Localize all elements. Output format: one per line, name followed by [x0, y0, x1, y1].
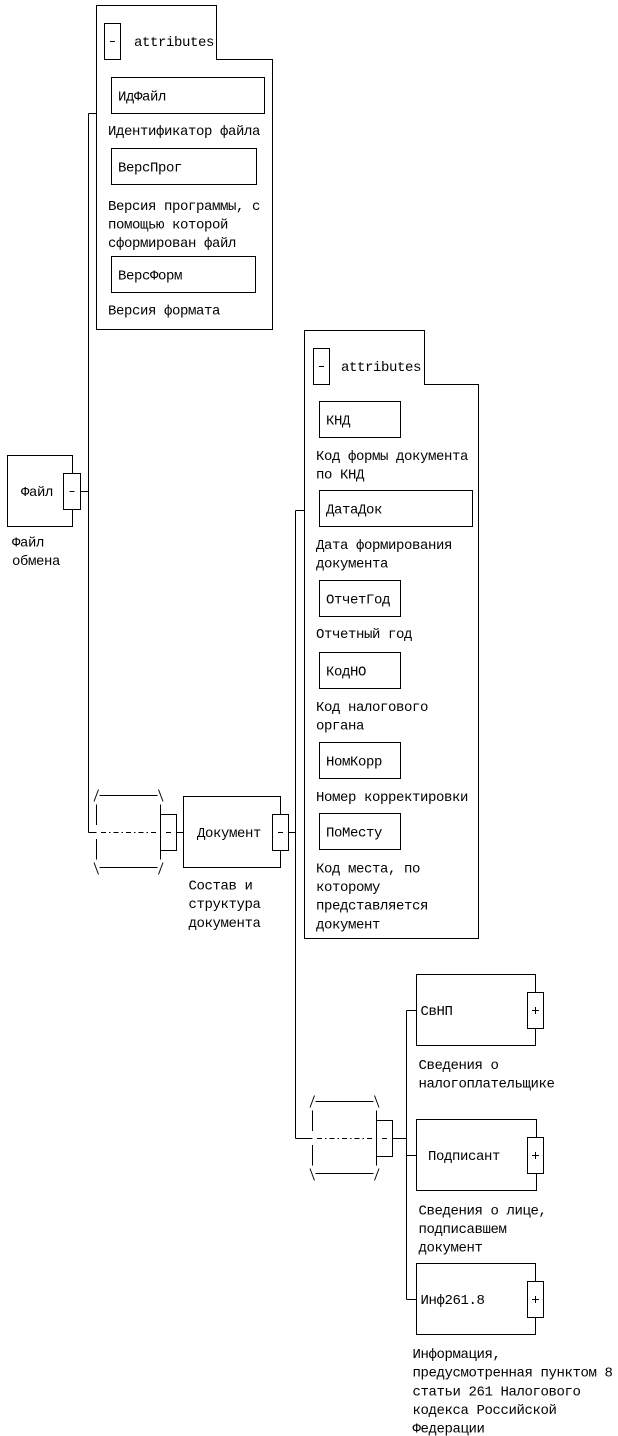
attribute box НомКорр [320, 743, 401, 779]
wire: bus to sequence symbol [89, 832, 97, 834]
svg-text:КодНО: КодНО [326, 665, 366, 681]
collapse box [-] of sequence (Документ children) [377, 1121, 393, 1157]
svg-text:ИдФайл: ИдФайл [118, 89, 166, 106]
expand box [-] of Файл [64, 474, 81, 510]
svg-text:налогоплательщике: налогоплательщике [419, 1077, 555, 1093]
svg-text:документа: документа [189, 916, 261, 932]
attribute box КодНО [320, 653, 401, 689]
svg-text:документ: документ [316, 917, 380, 933]
wire: trunk to Подписант [407, 1155, 417, 1157]
svg-text:ПоМесту: ПоМесту [326, 826, 382, 842]
svg-text:КНД: КНД [326, 414, 351, 430]
svg-text:по КНД: по КНД [316, 467, 365, 483]
wire: bus to lower sequence symbol [296, 1138, 313, 1140]
attribute box ВерсФорм [112, 257, 256, 293]
svg-text:статьи 261 Налогового: статьи 261 Налогового [413, 1384, 581, 1400]
wire: right vertical bus [295, 511, 297, 1139]
svg-text:предусмотренная пунктом 8: предусмотренная пунктом 8 [413, 1366, 613, 1382]
attribute box ВерсПрог [112, 149, 257, 185]
svg-text:attributes: attributes [341, 360, 421, 376]
svg-text:Номер корректировки: Номер корректировки [316, 790, 468, 806]
svg-text:представляется: представляется [316, 899, 428, 915]
svg-text:обмена: обмена [12, 553, 60, 570]
expand box [+] of Подписант [528, 1138, 544, 1174]
svg-text:Федерации: Федерации [413, 1422, 485, 1436]
svg-text:Код места, по: Код места, по [316, 862, 420, 878]
wire: left vertical bus [88, 114, 90, 833]
element box СвНП [417, 975, 536, 1046]
svg-text:Версия формата: Версия формата [108, 304, 220, 320]
wire: child trunk vertical [406, 1011, 408, 1300]
expand box [+] of Инф261.8 [528, 1282, 544, 1318]
collapse box [-] of sequence (Файл children) [161, 815, 177, 851]
svg-text:СвНП: СвНП [421, 1004, 453, 1020]
svg-text:Документ: Документ [197, 826, 261, 842]
collapse box [-] of Документ attributes [314, 349, 330, 385]
svg-text:структура: структура [189, 897, 261, 913]
svg-text:Файл: Файл [12, 535, 44, 552]
annotation: Код формы документа по КНД [316, 449, 468, 484]
annotation: Файл обмена [12, 535, 60, 571]
collapse box [-] of Файл attributes [105, 24, 121, 60]
svg-text:Сведения о лице,: Сведения о лице, [419, 1204, 547, 1220]
expand box [+] of СвНП [528, 993, 544, 1029]
svg-text:ДатаДок: ДатаДок [326, 503, 382, 519]
svg-text:органа: органа [316, 718, 364, 734]
svg-text:сформирован файл: сформирован файл [108, 235, 236, 252]
sequence compositor symbol (Файл children) [94, 790, 163, 875]
expand box [-] of Документ [273, 815, 289, 851]
svg-text:помощью которой: помощью которой [108, 216, 228, 233]
svg-text:ВерсПрог: ВерсПрог [118, 161, 182, 177]
attribute box КНД [320, 402, 401, 438]
svg-text:Инф261.8: Инф261.8 [421, 1293, 485, 1309]
annotation: Код места представления [316, 862, 428, 934]
wire: trunk to СвНП [407, 1010, 417, 1012]
attributes group of Документ (outline) [305, 331, 479, 939]
wire: bus to attributes group [89, 113, 97, 115]
annotation: Дата формирования документа [316, 538, 452, 573]
svg-text:ОтчетГод: ОтчетГод [326, 593, 390, 609]
svg-text:Дата формирования: Дата формирования [316, 538, 452, 554]
svg-text:ВерсФорм: ВерсФорм [118, 269, 182, 285]
svg-text:Код формы документа: Код формы документа [316, 449, 468, 465]
svg-text:подписавшем: подписавшем [419, 1222, 507, 1238]
wire: trunk to Инф261.8 [407, 1299, 417, 1301]
wire: sequence to Документ [177, 832, 184, 834]
svg-text:НомКорр: НомКорр [326, 755, 382, 771]
svg-text:документ: документ [419, 1241, 483, 1257]
svg-text:Код налогового: Код налогового [316, 700, 428, 716]
svg-text:Сведения о: Сведения о [419, 1058, 499, 1074]
svg-text:Файл: Файл [21, 484, 53, 501]
wire: Файл [-] to vertical bus [81, 491, 89, 493]
annotation: Состав и структура документа [189, 879, 261, 932]
svg-text:Информация,: Информация, [413, 1347, 501, 1363]
attribute box ОтчетГод [320, 581, 401, 617]
element box Подписант [417, 1120, 537, 1191]
wire: Документ [-] to right vertical bus [289, 832, 296, 834]
svg-text:attributes: attributes [134, 35, 214, 51]
element box Документ [184, 797, 281, 868]
svg-text:кодекса Российской: кодекса Российской [413, 1402, 557, 1419]
annotation: Версия программы [108, 199, 260, 252]
annotation: Сведения о лице, подписавшем документ [419, 1204, 547, 1257]
svg-text:которому: которому [316, 880, 380, 896]
attributes group of Файл (outline) [97, 6, 273, 330]
sequence compositor symbol (Документ children) [310, 1096, 379, 1181]
attribute box ДатаДок [320, 491, 473, 527]
svg-text:Состав и: Состав и [189, 879, 253, 895]
svg-text:Подписант: Подписант [428, 1149, 500, 1165]
annotation: Код налогового органа [316, 700, 428, 735]
element box Инф261.8 [417, 1264, 536, 1335]
attribute box ИдФайл [112, 78, 265, 114]
attribute box ПоМесту [320, 814, 401, 850]
annotation: Информация, предусмотренная пунктом 8 статьи 261 [413, 1347, 613, 1436]
annotation: Сведения о налогоплательщике [419, 1058, 555, 1093]
svg-text:Идентификатор файла: Идентификатор файла [108, 123, 260, 140]
svg-text:Версия программы, с: Версия программы, с [108, 199, 260, 215]
svg-text:Отчетный год: Отчетный год [316, 626, 412, 643]
element box Файл [8, 456, 73, 527]
wire: lower sequence to child trunk [393, 1138, 407, 1140]
wire: bus to Документ attributes group [296, 510, 305, 512]
svg-text:документа: документа [316, 556, 388, 572]
